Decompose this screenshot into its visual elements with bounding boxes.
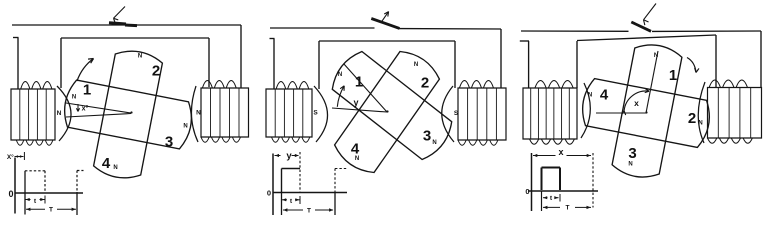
svg-text:1: 1 [355,74,363,91]
svg-text:3: 3 [423,128,431,145]
svg-text:x°: x° [82,105,89,113]
svg-text:x: x [558,147,563,157]
svg-text:4: 4 [600,87,609,104]
svg-text:N: N [432,140,436,146]
svg-text:X°: X° [7,153,14,161]
svg-text:N: N [196,109,201,116]
svg-text:N: N [113,165,117,171]
svg-text:N: N [414,62,418,68]
svg-text:2: 2 [421,75,429,92]
svg-text:3: 3 [628,145,636,162]
svg-text:S: S [454,110,459,117]
svg-text:1: 1 [83,82,91,99]
svg-text:y: y [286,151,292,162]
svg-text:N: N [57,110,62,117]
svg-text:N: N [183,124,187,130]
svg-text:4: 4 [351,141,360,158]
svg-text:T: T [307,208,311,215]
svg-text:N: N [72,95,76,101]
svg-text:2: 2 [688,110,696,127]
svg-text:S: S [313,109,318,116]
svg-text:0: 0 [8,189,13,199]
svg-text:3: 3 [165,134,173,151]
svg-text:N: N [355,156,359,162]
svg-text:y: y [353,98,358,108]
svg-text:x: x [634,98,639,108]
svg-text:N: N [338,72,342,78]
svg-text:N: N [628,162,632,168]
svg-text:2: 2 [152,63,160,80]
svg-text:4: 4 [102,155,111,172]
svg-text:T: T [566,205,570,212]
svg-text:T: T [49,207,53,214]
svg-text:N: N [588,93,592,99]
svg-text:N: N [698,121,702,127]
svg-text:0: 0 [267,188,271,197]
svg-text:0: 0 [525,187,529,196]
svg-text:1: 1 [669,67,677,84]
svg-text:N: N [138,54,142,60]
